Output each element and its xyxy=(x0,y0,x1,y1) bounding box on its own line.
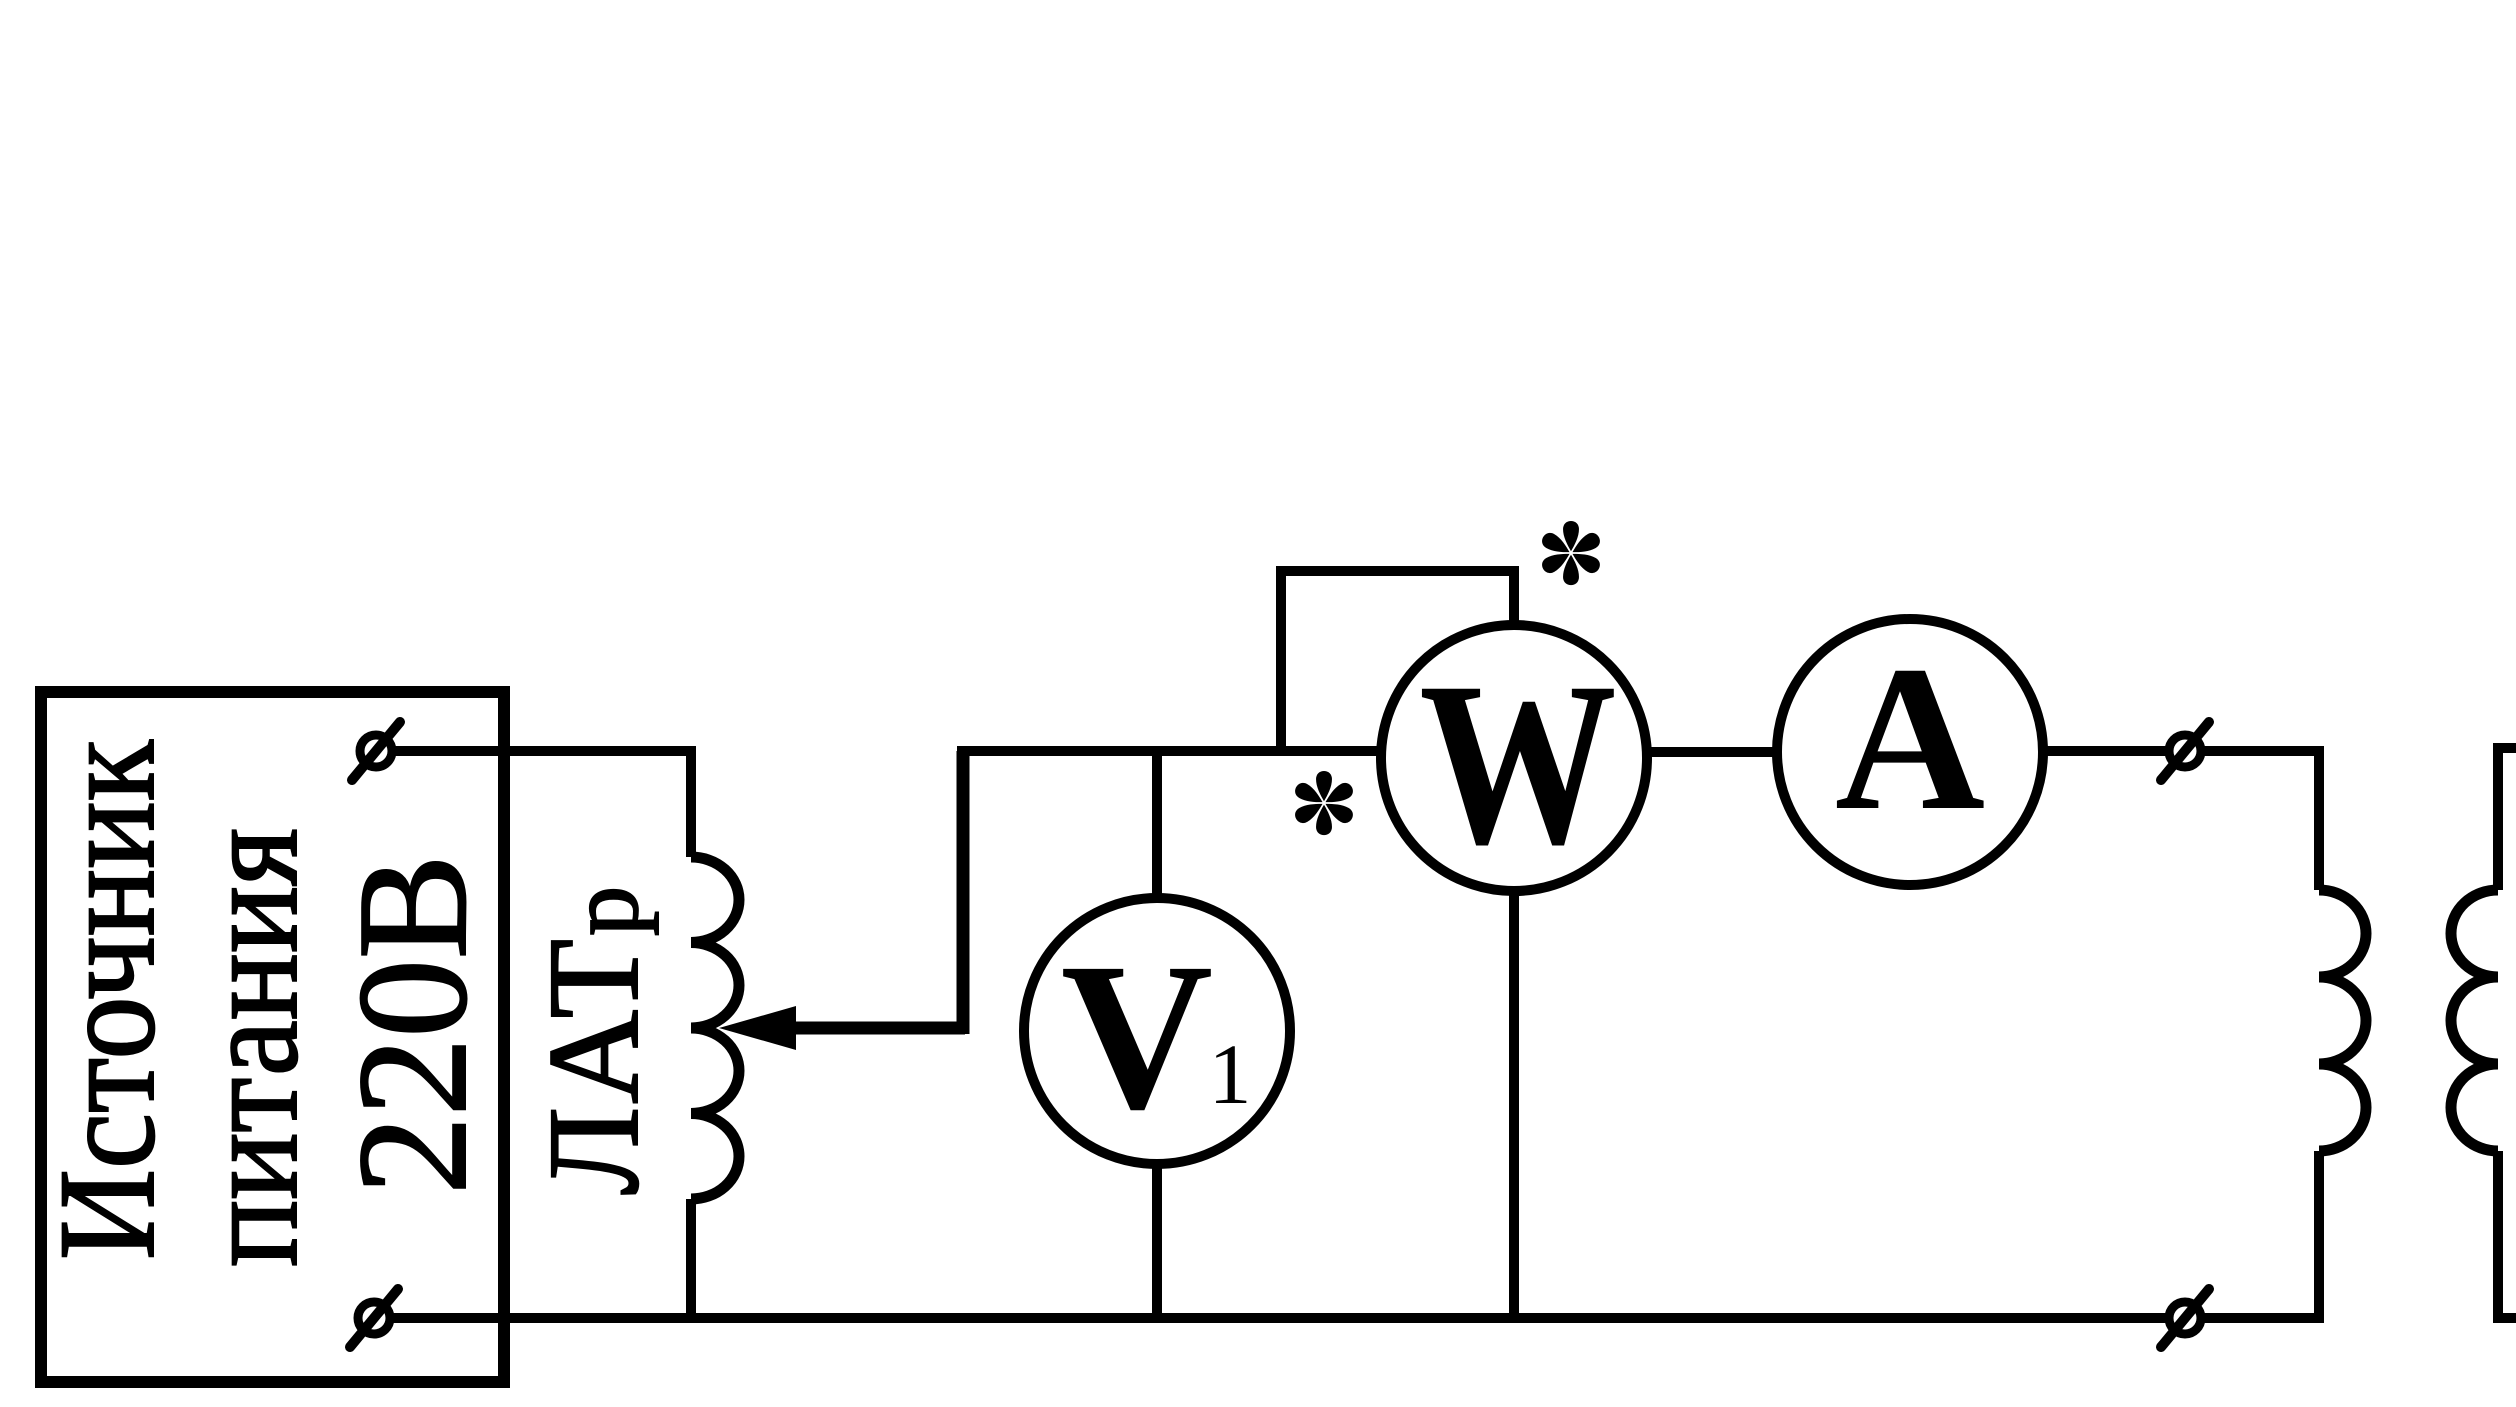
wire secondary bottom stub xyxy=(2498,1151,2516,1318)
svg-text:A: A xyxy=(1835,623,1985,853)
power source box (Источник питания 220В) xyxy=(41,692,504,1382)
asterisk (wattmeter voltage terminal, top) xyxy=(1539,521,1603,585)
svg-text:Источник: Источник xyxy=(30,739,183,1260)
wire ammeter to transformer primary xyxy=(2043,751,2319,890)
svg-text:питания: питания xyxy=(173,828,326,1267)
svg-text:W: W xyxy=(1419,634,1617,893)
wire V1 to bottom rail xyxy=(1152,1165,1162,1318)
wire secondary top stub xyxy=(2498,748,2516,890)
terminal (load bottom) xyxy=(2161,1289,2209,1347)
svg-text:220В: 220В xyxy=(325,854,499,1194)
terminal (source top output) xyxy=(352,722,400,780)
transformer secondary coil xyxy=(2451,890,2498,1151)
transformer primary coil xyxy=(2319,890,2366,1151)
voltmeter V1 xyxy=(1024,898,1290,1164)
ammeter A xyxy=(1777,619,2043,885)
terminal (source bottom output) xyxy=(350,1289,398,1347)
terminal (load top) xyxy=(2161,722,2209,780)
wire tap to top rail xyxy=(957,751,970,1034)
wire wattmeter to ammeter xyxy=(1647,747,1777,757)
autotransformer ЛАТр coil xyxy=(691,857,739,1199)
wire transformer primary bottom xyxy=(2314,1151,2324,1323)
wire W bottom to bottom rail xyxy=(1509,891,1519,1318)
svg-text:1: 1 xyxy=(1209,1026,1252,1122)
top rail (tap to wattmeter) xyxy=(957,746,1381,756)
asterisk (wattmeter current terminal, left) xyxy=(1292,771,1356,835)
wattmeter voltage-coil wire (bump over W) xyxy=(1281,571,1514,751)
wire from top terminal to autotransformer xyxy=(376,751,691,857)
svg-text:V: V xyxy=(1061,919,1213,1153)
ЛАТр tap arrow xyxy=(719,1006,965,1050)
wire V1 branch (top) xyxy=(1152,751,1162,900)
bottom rail xyxy=(374,1313,2324,1323)
wattmeter W xyxy=(1381,625,1647,893)
wire below ЛАТр coil to bottom rail xyxy=(686,1199,696,1318)
